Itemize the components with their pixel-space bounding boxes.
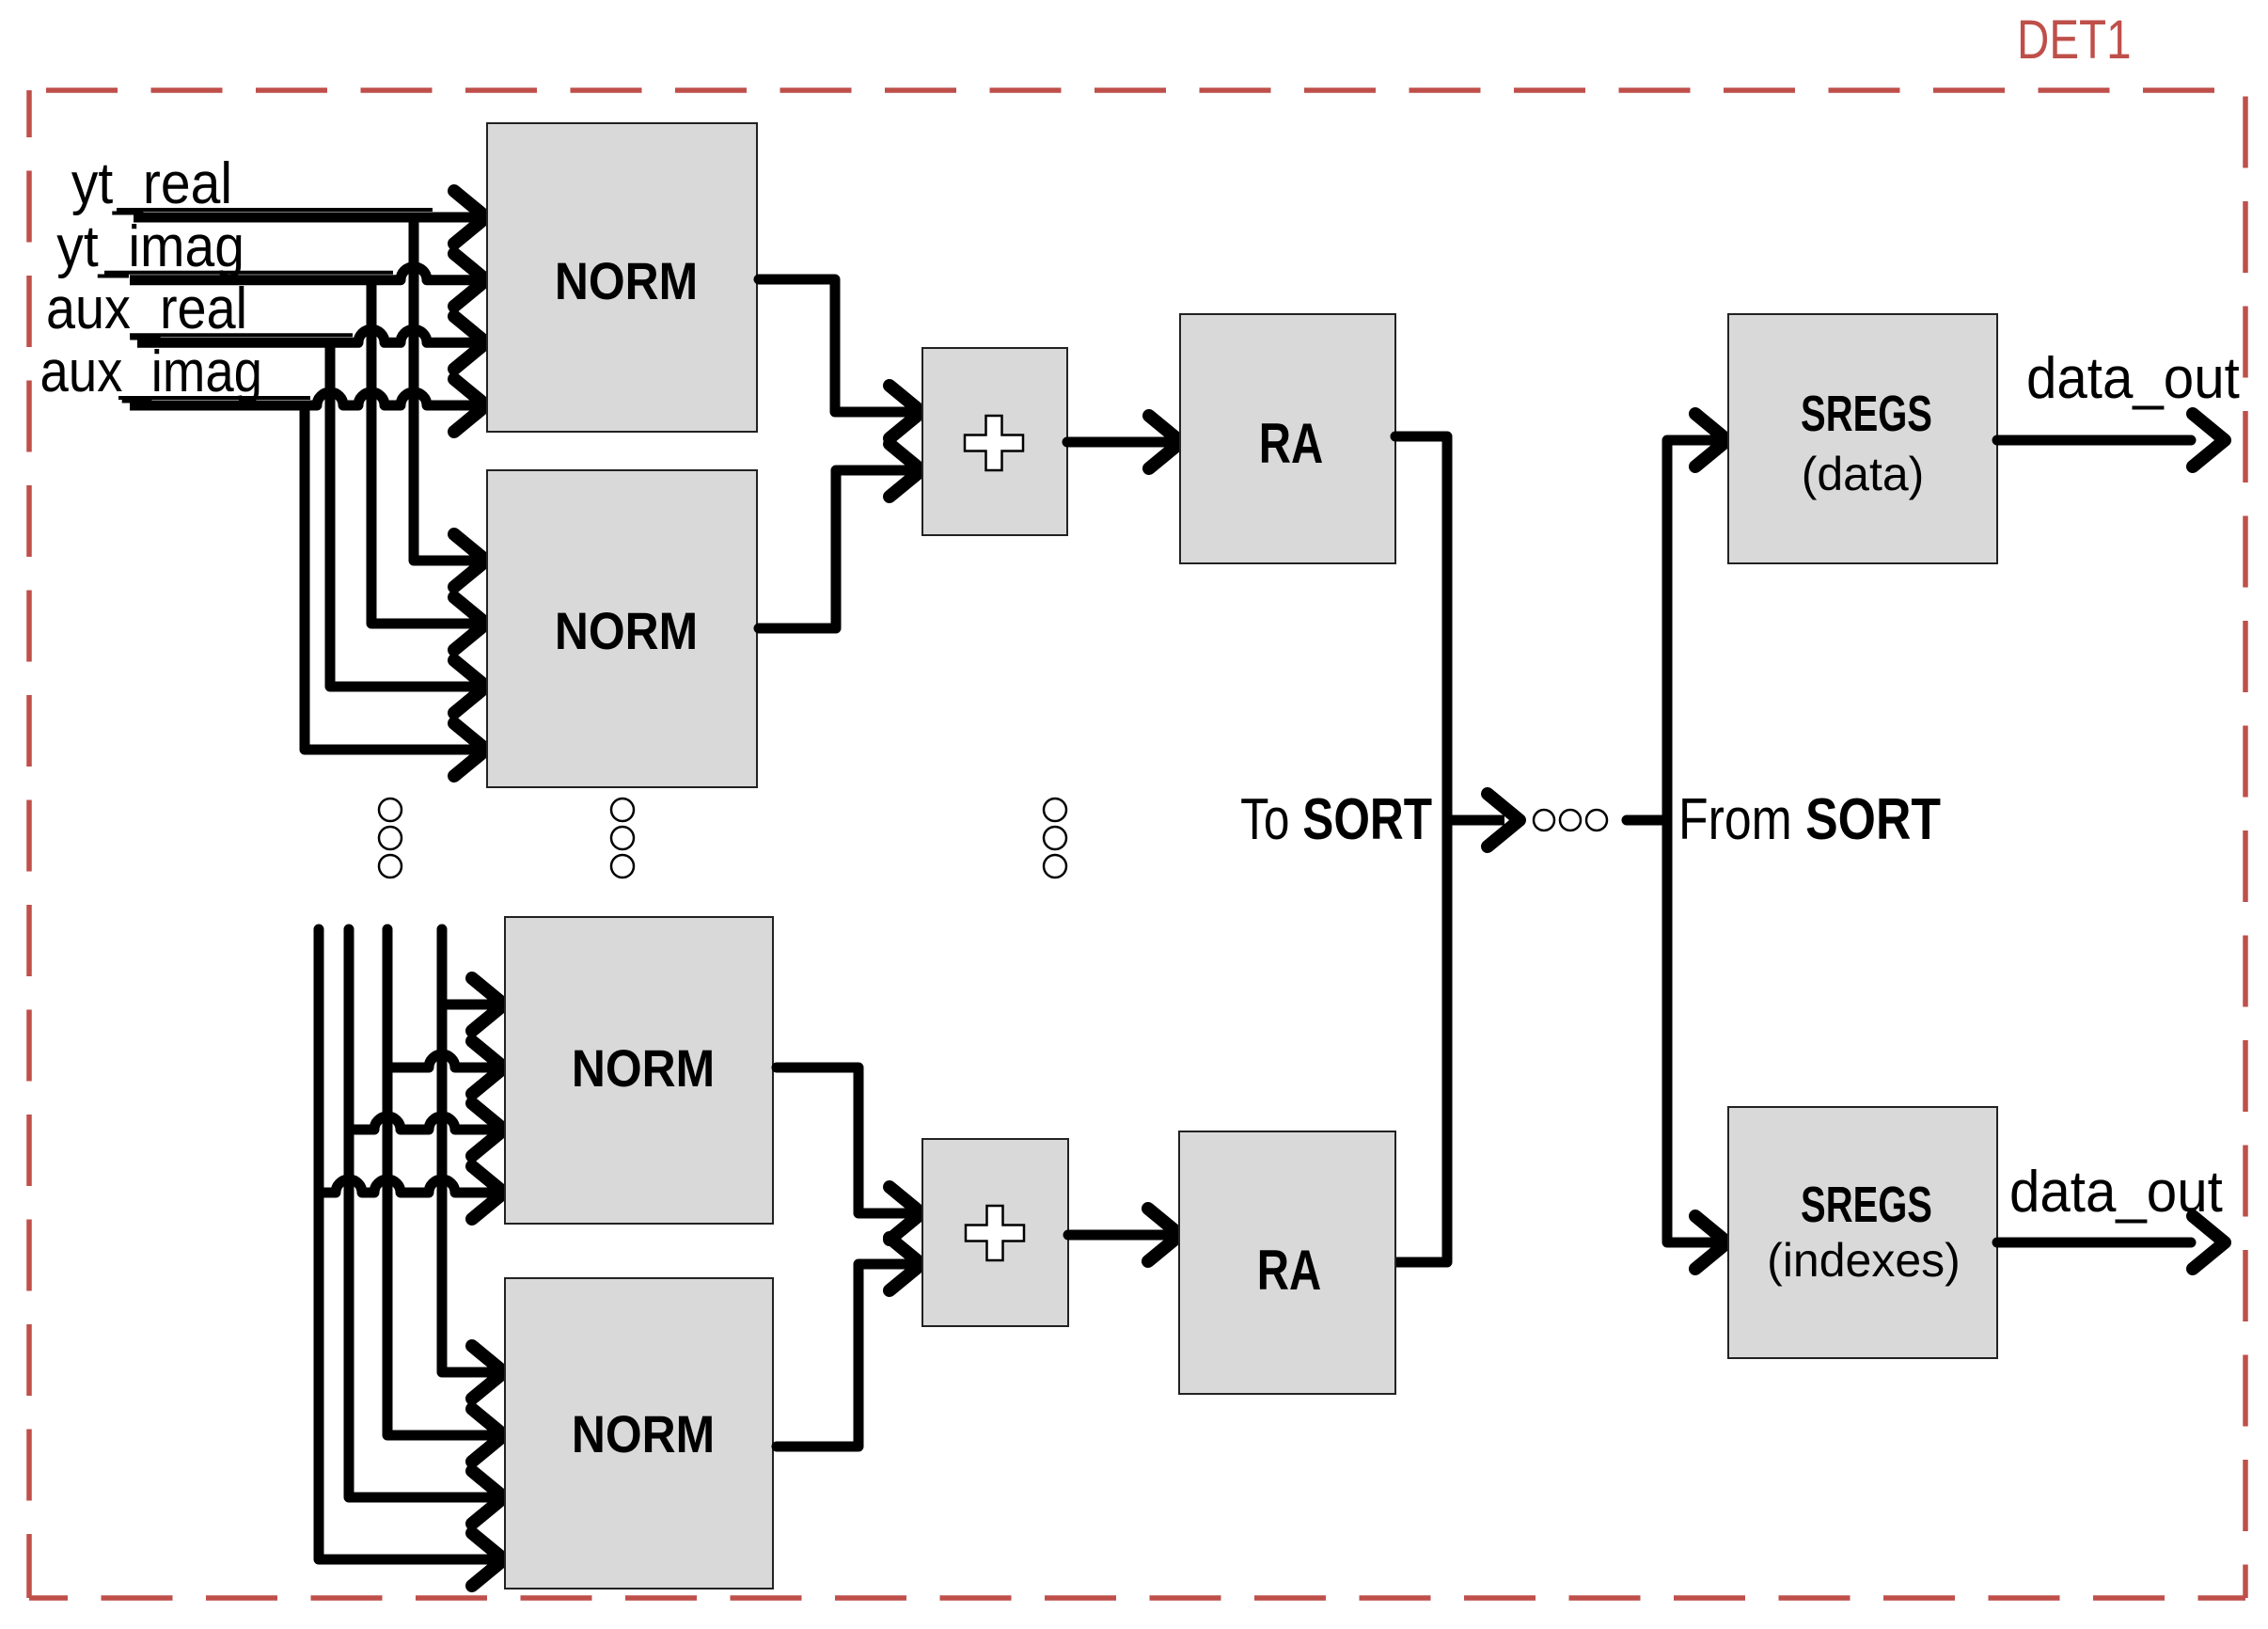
bus vertical v3 (input 2) [387,929,503,1435]
block SREGS (data) [1728,314,1997,563]
svg-text:NORM: NORM [572,1405,715,1463]
svg-text:data_out: data_out [2026,345,2240,410]
svg-text:aux_real: aux_real [46,277,247,340]
wire stub From SORT [1627,815,1667,826]
wire NORM2 output to adder1 input 2 [759,470,916,628]
plus symbol of adder A2 [966,1206,1024,1260]
ellipsis SORT omitted logic [1534,810,1554,830]
wire into NORM3 input 2 [387,1054,503,1068]
ellipsis antenna column 1 [379,799,402,821]
block NORM (antenna 1, aux pair) [487,470,757,787]
wire aux_imag (thin net stub) [118,396,310,400]
ellipsis antenna column 2 [611,799,634,821]
wire From SORT riser to SREGS blocks [1667,440,1715,1242]
wire aux_imag branch down into NORM2 input 4 [305,405,485,750]
wire yt_imag into NORM1 input 2 [130,267,485,280]
wire NORM3 output to adder A2 input 1 [777,1068,916,1213]
wire yt_imag (thin net stub) [104,271,393,275]
arrow into NORM4 input 1 [472,1346,504,1399]
svg-text:To SORT: To SORT [1240,786,1432,852]
wire NORM4 output to adder A2 input 2 [777,1264,916,1447]
wire yt_real into NORM1 input 1 [134,213,485,223]
wire SREGS(indexes) output data_out [1997,1238,2191,1248]
svg-text:SREGS: SREGS [1801,1177,1932,1233]
svg-text:From SORT: From SORT [1678,787,1941,852]
wire yt_real (thin net stub) [117,208,433,212]
svg-text:DET1: DET1 [2017,10,2132,71]
arrow into NORM4 input 4 [472,1533,504,1586]
svg-text:aux_imag: aux_imag [40,340,262,404]
wire yt_real branch down into NORM2 input 1 [414,217,485,561]
adder A2 (bottom sum block) [922,1139,1068,1326]
block RA (top rank accumulator) [1180,314,1395,563]
plus symbol of adder A1 [965,416,1023,470]
wire NORM1 output to adder1 input 1 [759,279,916,412]
arrow into SREGS (data) [1695,414,1727,467]
wire aux_real (thin net stub) [130,333,353,337]
wire branch to SORT arrow [1447,815,1504,826]
block NORM (antenna M, yt pair) [505,917,773,1224]
arrow into NORM4 input 2 [472,1409,504,1462]
wire RA1 output / RA2 output merged bus to SORT [1395,436,1447,1262]
block SREGS (indexes) [1728,1107,1997,1358]
wire aux_real into NORM1 input 3 [137,329,485,342]
bus vertical v4 (NORM3/NORM4 input 1) [442,929,503,1372]
svg-text:yt_real: yt_real [71,150,232,216]
wire into NORM3 input 1 [442,1000,503,1010]
bus vertical v1 (input 4) [319,929,503,1559]
ellipsis antenna column 3 [1044,799,1066,821]
bus vertical v2 (input 3) [349,929,503,1497]
wire adder A1 output to RA1 [1067,437,1175,448]
block RA (bottom rank accumulator) [1179,1131,1395,1394]
wire aux_real branch down into NORM2 input 3 [330,342,485,687]
svg-text:NORM: NORM [555,602,698,660]
block NORM (antenna 1, yt pair) [487,123,757,432]
wire adder A2 output to RA2 [1068,1230,1174,1241]
svg-text:yt_imag: yt_imag [56,214,244,279]
arrow into SREGS (indexes) [1695,1216,1727,1269]
wire aux_imag into NORM1 input 4 [130,392,485,405]
adder A1 (top sum block) [922,348,1067,535]
block NORM (antenna M, aux pair) [505,1278,773,1589]
svg-text:SREGS: SREGS [1801,386,1932,442]
wire yt_imag branch down into NORM2 input 2 [371,280,485,624]
svg-text:NORM: NORM [572,1039,715,1098]
svg-text:NORM: NORM [555,252,698,310]
svg-text:(data): (data) [1802,448,1925,500]
arrow into NORM4 input 3 [472,1471,504,1524]
wire into NORM3 input 4 [319,1179,503,1193]
svg-text:(indexes): (indexes) [1767,1234,1961,1287]
arrow To SORT [1488,794,1520,846]
wire SREGS(data) output data_out [1997,435,2191,446]
svg-text:RA: RA [1257,1240,1321,1303]
svg-text:RA: RA [1259,413,1323,476]
wire into NORM3 input 3 [349,1116,503,1130]
